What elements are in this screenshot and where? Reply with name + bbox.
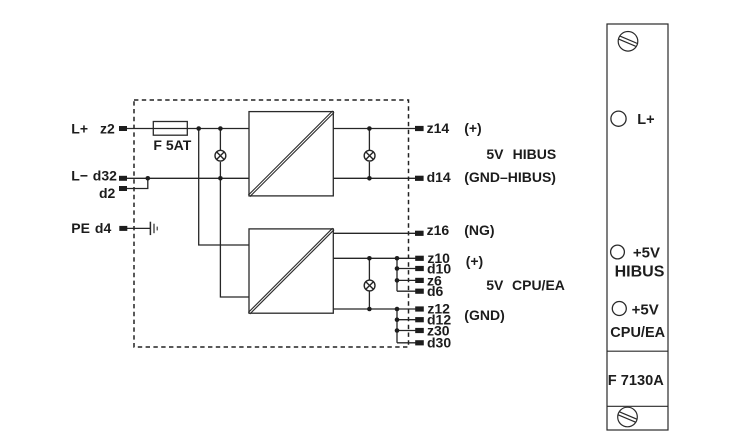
dashed boundary box	[134, 100, 409, 347]
wire stub d12	[397, 319, 416, 321]
svg-text:d2: d2	[99, 185, 116, 201]
wire vertical from node E to DC/DC 2 input 2	[220, 178, 249, 297]
svg-text:(+): (+)	[466, 253, 484, 269]
svg-text:CPU/EA: CPU/EA	[512, 277, 565, 293]
terminal z6	[415, 278, 424, 283]
node J junction	[395, 307, 400, 312]
wire stub d6	[397, 290, 416, 292]
svg-text:F 7130A: F 7130A	[608, 373, 664, 389]
svg-text:(GND): (GND)	[464, 307, 504, 323]
node G junction	[367, 256, 372, 261]
terminal d6	[415, 289, 424, 294]
wire DC/DC 1 plus output to z14	[333, 128, 415, 130]
terminal d4	[119, 226, 127, 231]
wire DC/DC 2 plus output to z10	[333, 257, 415, 259]
svg-text:d32: d32	[93, 168, 117, 184]
lamp H2	[364, 150, 375, 161]
converter U1 (DC/DC block 1)	[248, 111, 334, 197]
node z30 junction	[395, 328, 400, 333]
front panel divider line upper	[607, 350, 668, 352]
wire stub d10	[397, 268, 416, 270]
svg-text:L+: L+	[71, 120, 88, 136]
converter U2 (DC/DC block 2)	[248, 228, 334, 314]
wire DC/DC 1 minus output to d14	[333, 177, 415, 179]
wire L- d32 to DC/DC 1 input	[127, 177, 249, 179]
node D junction	[146, 176, 151, 181]
wire lamp H2 top lead	[368, 129, 370, 151]
terminal d10	[415, 266, 424, 271]
terminal d2	[119, 186, 127, 191]
node C junction	[367, 126, 372, 131]
svg-text:HIBUS: HIBUS	[513, 146, 557, 162]
terminal z16	[415, 231, 424, 236]
node d12 junction	[395, 317, 400, 322]
svg-text:+5V: +5V	[633, 244, 660, 261]
node I junction	[367, 307, 372, 312]
lamp H1	[215, 150, 226, 161]
wire lamp H1 bottom lead	[219, 162, 221, 179]
svg-text:F 5AT: F 5AT	[153, 137, 191, 153]
front panel LED L+	[611, 111, 626, 126]
svg-text:d4: d4	[95, 220, 112, 236]
front panel LED +5V HIBUS	[611, 245, 625, 259]
node F junction	[367, 176, 372, 181]
svg-text:(NG): (NG)	[464, 222, 494, 238]
svg-text:d30: d30	[427, 334, 451, 350]
wire lamp H3 bottom lead	[368, 291, 370, 309]
wire stub z6	[397, 279, 416, 281]
svg-text:d6: d6	[427, 283, 444, 299]
wire vertical from node A to DC/DC 2 input 1	[199, 129, 249, 246]
svg-text:L+: L+	[637, 112, 654, 128]
terminal z2	[119, 126, 127, 131]
svg-text:+5V: +5V	[632, 302, 659, 319]
terminal d12	[415, 317, 424, 322]
wire lamp H2 bottom lead	[368, 162, 370, 179]
front panel outline	[607, 24, 668, 430]
svg-text:PE: PE	[71, 220, 90, 236]
front panel divider line lower	[607, 405, 668, 407]
node d10 junction	[395, 266, 400, 271]
svg-text:(+): (+)	[464, 120, 482, 136]
svg-text:5V: 5V	[486, 277, 504, 293]
svg-text:5V: 5V	[486, 146, 504, 162]
wire L+ z2 to fuse and DC/DC 1 input	[127, 128, 249, 130]
wire PE d4 to ground	[127, 227, 150, 229]
svg-text:CPU/EA: CPU/EA	[610, 325, 665, 341]
front panel screw bottom	[618, 407, 638, 427]
wire branch bus z12-d30	[396, 309, 398, 343]
front panel screw top	[618, 32, 638, 52]
front panel LED +5V CPU/EA	[612, 302, 626, 316]
svg-text:z14: z14	[427, 120, 450, 136]
wire d2 jumper to node D	[127, 178, 148, 188]
ground PE symbol	[150, 222, 157, 235]
terminal z30	[415, 328, 424, 333]
wire stub z30	[397, 330, 416, 332]
terminal d30	[415, 340, 424, 345]
svg-text:z2: z2	[100, 120, 115, 136]
svg-text:(GND–HIBUS): (GND–HIBUS)	[464, 169, 556, 185]
svg-text:d14: d14	[427, 169, 451, 185]
wire branch bus z10-d6	[396, 258, 398, 291]
wire stub d30	[397, 342, 416, 344]
terminal z14	[415, 126, 424, 131]
node E junction	[218, 176, 223, 181]
node H junction	[395, 256, 400, 261]
wire DC/DC 2 minus output to z12	[333, 308, 415, 310]
node B junction	[218, 126, 223, 131]
wire DC/DC 2 NG output to z16	[333, 232, 415, 234]
terminal d14	[415, 176, 424, 181]
svg-text:HIBUS: HIBUS	[615, 263, 665, 280]
node A junction	[196, 126, 201, 131]
terminal z12	[415, 306, 424, 311]
lamp H3	[364, 280, 375, 291]
svg-text:L−: L−	[71, 168, 88, 184]
fuse F1 F 5AT	[153, 122, 187, 136]
wire lamp H3 top lead	[368, 258, 370, 279]
terminal d32	[119, 176, 127, 181]
node z6 junction	[395, 278, 400, 283]
wire lamp H1 top lead	[219, 129, 221, 151]
svg-text:z16: z16	[427, 222, 450, 238]
terminal z10	[415, 256, 424, 261]
